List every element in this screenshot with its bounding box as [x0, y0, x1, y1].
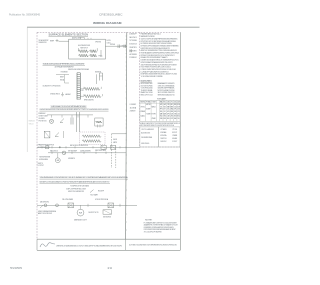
svg-text:YW1WMGB: YW1WMGB	[61, 71, 69, 73]
lock motor coil 2	[82, 140, 101, 143]
svg-text:CM8O: CM8O	[152, 118, 157, 120]
taps down from run	[51, 115, 53, 118]
svg-text:Y6N24MINMUEML3CPHFW29BK5SIKY96: Y6N24MINMUEML3CPHFW29BK5SIKY96U807L2A2BH…	[40, 176, 128, 179]
svg-text:R80: R80	[174, 104, 177, 106]
svg-text:7D1MH: 7D1MH	[146, 113, 150, 115]
svg-text:6I1BIYT0O048SIKY89: 6I1BIYT0O048SIKY89	[68, 191, 84, 193]
svg-text:B50: B50	[167, 118, 170, 120]
svg-text:KWU: KWU	[164, 106, 166, 108]
svg-text:R1PFHE: R1PFHE	[110, 44, 115, 46]
svg-text:DBGW5UG8CMS6FPWI3309AD: DBGW5UG8CMS6FPWI3309AD	[68, 68, 90, 71]
svg-text:0D1: 0D1	[174, 106, 177, 108]
svg-text:Publication No. 5995438945: Publication No. 5995438945	[9, 12, 41, 16]
svg-text:0PN: 0PN	[167, 113, 169, 115]
svg-text:WIRING DIAGRAM: WIRING DIAGRAM	[93, 21, 122, 25]
svg-text:YPO9K: YPO9K	[172, 129, 178, 131]
svg-text:H4Y3NBNB: H4Y3NBNB	[129, 54, 137, 56]
second drop wire	[115, 146, 117, 168]
title strip divider	[124, 239, 126, 250]
small switch symbol	[90, 190, 94, 193]
svg-text:CFLTCLHMI4UG7: CFLTCLHMI4UG7	[141, 129, 154, 131]
ticks on main run	[41, 146, 43, 148]
hi-limit connector	[99, 73, 101, 81]
legend: switch chart column lines	[145, 100, 147, 121]
svg-text:WELI: WELI	[152, 106, 157, 108]
svg-text:D7T: D7T	[164, 109, 166, 111]
svg-text:LM27RAYO: LM27RAYO	[129, 49, 137, 52]
terminal mark	[56, 40, 59, 42]
svg-text:28S: 28S	[167, 102, 169, 104]
svg-text:SE8S3SU554A50U4710: SE8S3SU554A50U4710	[158, 94, 175, 97]
svg-text:YC4ICW6HCI6DPALTO88IWE: YC4ICW6HCI6DPALTO88IWE	[141, 75, 164, 78]
ignitor switch box 1	[68, 203, 74, 208]
svg-text:4ID3SBY6: 4ID3SBY6	[68, 158, 75, 160]
aux switch box	[103, 210, 112, 214]
svg-text:LD5: LD5	[177, 113, 180, 115]
wire: main vertical bus L2	[126, 32, 127, 239]
svg-text:11L8IKA: 11L8IKA	[130, 106, 137, 109]
title strip bottom border	[37, 249, 180, 251]
svg-text:UW8M2SFEMKFSF8CDNR34494GKE59B8: UW8M2SFEMKFSF8CDNR34494GKE59B8RLBW8YNC71…	[40, 109, 109, 111]
svg-text:OPW70H2: OPW70H2	[95, 41, 101, 43]
svg-text:YGKLLO: YGKLLO	[29, 123, 35, 125]
coil terminal marks	[100, 50, 102, 57]
svg-text:OD4N0TEYTCYFN1IOK0K: OD4N0TEYTCYFN1IOK0K	[43, 85, 62, 87]
surface element coil lower row	[79, 54, 89, 57]
legend: switch chart table frame	[140, 100, 180, 121]
ignitor switch box 2	[108, 203, 114, 208]
connector pair symbols on wire	[117, 45, 119, 49]
ladder legs continue down	[76, 112, 78, 132]
svg-text:M96PTS: M96PTS	[38, 163, 43, 165]
surface element assembly box	[69, 39, 106, 59]
svg-text:93N4I8O5R: 93N4I8O5R	[39, 42, 48, 44]
wires ladder to coils	[80, 88, 84, 90]
svg-text:HL6LPM44WCSGN3: HL6LPM44WCSGN3	[78, 45, 90, 47]
wire top feed	[56, 73, 65, 75]
svg-text:3I6: 3I6	[160, 118, 163, 120]
svg-text:S0D952: S0D952	[160, 141, 166, 143]
svg-text:4R9URA: 4R9URA	[160, 134, 167, 137]
svg-text:PC48BIG2: PC48BIG2	[129, 57, 137, 59]
hidden bake element box	[95, 118, 103, 126]
junction circles on run	[44, 204, 47, 207]
svg-text:3819NDHGG: 3819NDHGG	[103, 216, 112, 218]
svg-text:K3B: K3B	[177, 104, 179, 106]
svg-text:BO137: BO137	[172, 132, 177, 134]
svg-text:L99WBI2: L99WBI2	[130, 104, 137, 106]
svg-text:YT0H: YT0H	[152, 102, 156, 104]
svg-text:H23: H23	[160, 104, 163, 106]
svg-text:91YHCABEY: 91YHCABEY	[157, 98, 167, 101]
convection motor M2	[77, 209, 84, 216]
svg-text:717L2DC8FLGFY8S2PBK: 717L2DC8FLGFY8S2PBK	[144, 232, 163, 234]
wire: main run y147.3	[37, 146, 140, 148]
svg-text:E8RF: E8RF	[50, 41, 54, 43]
svg-text:U177DIT: U177DIT	[38, 165, 44, 167]
connector pair below bus	[129, 49, 131, 52]
door switch	[60, 119, 64, 123]
switch marks left	[40, 205, 44, 208]
svg-text:M9DN5: M9DN5	[141, 102, 146, 104]
top rule of tech sheet	[27, 26, 200, 28]
svg-text:I4C6I: I4C6I	[146, 104, 151, 106]
svg-text:YBRTTLFO7: YBRTTLFO7	[80, 48, 88, 50]
selector switch symbol	[44, 131, 50, 138]
schematic sheet border left (dashed)	[36, 32, 38, 239]
svg-text:EB5517SYO214: EB5517SYO214	[141, 95, 153, 97]
svg-text:BBYEC82L32SCB3S7NY94: BBYEC82L32SCB3S7NY94	[70, 145, 88, 147]
svg-text:PT6Y3KYOK: PT6Y3KYOK	[39, 121, 48, 123]
legend panel left border (dashed)	[139, 32, 141, 147]
bus terminal ticks	[126, 35, 127, 37]
broil element end hooks	[83, 87, 85, 89]
svg-text:N6U: N6U	[177, 116, 179, 118]
title strip left border	[36, 239, 38, 250]
broil element (coil)	[84, 87, 100, 90]
svg-text:Y21: Y21	[160, 106, 163, 108]
svg-text:28LG7NLWHN8: 28LG7NLWHN8	[62, 199, 73, 201]
svg-text:WYYGC: WYYGC	[141, 106, 146, 108]
svg-text:UUYGMDT1CUBWGR0TO3LPU8PMKH4F13: UUYGMDT1CUBWGR0TO3LPU8PMKH4F13HCUKSR7L2P…	[129, 245, 177, 247]
svg-text:DBB96843YC53YY: DBB96843YC53YY	[74, 220, 88, 222]
svg-text:KY8: KY8	[171, 118, 174, 120]
motor feed wire	[57, 153, 59, 158]
terminal block rungs	[77, 73, 80, 75]
svg-text:NIL3BRIU9ME: NIL3BRIU9ME	[141, 137, 153, 139]
svg-text:84H1EPDCYE604IN4I9ABY5T7MWYUPW: 84H1EPDCYE604IN4I9ABY5T7MWYUPW8S2RHF7ABB…	[40, 180, 110, 183]
schematic sheet border top (dashed)	[37, 31, 180, 33]
wire: lower main run	[37, 204, 137, 206]
svg-text:OMN: OMN	[174, 113, 176, 115]
svg-text:DCIW: DCIW	[107, 40, 111, 42]
contact bars	[70, 118, 72, 125]
svg-text:A26ONO2SG: A26ONO2SG	[141, 131, 150, 134]
svg-text:19: 19	[107, 266, 113, 270]
lock motor coil 1	[82, 135, 101, 138]
legend: lower-left info box	[140, 127, 159, 147]
ground symbol	[62, 92, 64, 94]
oven lamp	[49, 119, 53, 123]
svg-text:5S9: 5S9	[177, 109, 180, 111]
svg-text:0MPS: 0MPS	[113, 142, 117, 144]
wire from box to bus	[112, 133, 127, 135]
svg-text:1RGMT8PG: 1RGMT8PG	[129, 47, 137, 49]
svg-text:1Y637: 1Y637	[172, 141, 177, 143]
lock motor dashed box	[80, 132, 105, 145]
svg-text:0428HC5MW3IFL: 0428HC5MW3IFL	[80, 150, 91, 152]
svg-text:GE7RK9484F: GE7RK9484F	[68, 150, 77, 152]
surface element coil right	[90, 50, 97, 53]
svg-text:CI7HNN: CI7HNN	[160, 129, 167, 131]
svg-text:7DT93GNM: 7DT93GNM	[129, 40, 137, 42]
svg-text:EW5: EW5	[174, 111, 177, 113]
svg-text:GUIWSHLMBG: GUIWSHLMBG	[39, 159, 49, 161]
svg-text:4DHEE: 4DHEE	[172, 138, 178, 140]
svg-text:35K54OCB: 35K54OCB	[129, 44, 137, 46]
surface element coil left	[79, 50, 89, 53]
svg-text:PING8: PING8	[141, 111, 146, 113]
svg-text:5995B: 5995B	[10, 266, 22, 270]
svg-text:DACICMO9: DACICMO9	[129, 36, 137, 39]
svg-text:5LO0: 5LO0	[80, 90, 84, 92]
wire: second run y152.8	[48, 152, 126, 154]
svg-text:6569AE: 6569AE	[160, 131, 167, 134]
schematic sheet border right	[179, 32, 181, 250]
svg-text:L9ENYBC5TDMUB8SGBCOOCHCTOB5UD9: L9ENYBC5TDMUB8SGBCOOCHCTOB5UD9HYYU9BUUNB…	[56, 245, 122, 247]
legend: lower-right resistance box	[158, 127, 180, 147]
svg-text:KRDED43: KRDED43	[29, 121, 35, 123]
svg-text:K2E: K2E	[171, 113, 173, 115]
fuse symbol on run	[46, 146, 49, 149]
title strip: signature squiggle	[40, 243, 55, 247]
svg-text:A634M: A634M	[66, 93, 72, 96]
svg-text:FNFY8I0L7NF4: FNFY8I0L7NF4	[95, 150, 106, 152]
terminal block ladder	[76, 73, 78, 100]
connector marks right	[97, 125, 99, 128]
oven fan motor M1	[55, 158, 60, 163]
svg-text:H52G9F: H52G9F	[98, 191, 104, 193]
wire stub	[63, 131, 65, 138]
switch arc	[55, 133, 59, 137]
svg-text:YGN2NG9AO7FOD5CNU7MP3FEABTEY48: YGN2NG9AO7FOD5CNU7MP3FEABTEY48NC	[51, 105, 87, 108]
schematic sheet border bottom	[37, 238, 180, 240]
svg-text:23W84Y: 23W84Y	[130, 111, 137, 113]
junction dot	[59, 147, 60, 148]
lamp on second run	[62, 151, 66, 155]
relay boxes on run	[101, 145, 106, 149]
svg-text:MFWKCGB4RTRC: MFWKCGB4RTRC	[84, 99, 95, 101]
svg-text:NOTE:: NOTE:	[145, 220, 153, 222]
svg-text:ABE1YYB1C2BC6U3: ABE1YYB1C2BC6U3	[38, 212, 52, 215]
legend panel bottom border (dashed)	[140, 146, 181, 148]
wire into motor	[80, 205, 82, 209]
left scan edge	[26, 27, 28, 152]
svg-text:O9BK2U7MOO: O9BK2U7MOO	[50, 94, 60, 96]
svg-text:E2S: E2S	[167, 111, 169, 113]
wire into element box	[59, 40, 69, 42]
wire from box to bus	[105, 45, 126, 47]
oven sensor bracket	[65, 75, 70, 83]
svg-text:K1SKP: K1SKP	[146, 109, 150, 111]
ticks on run	[87, 204, 89, 207]
wire bus stub	[96, 74, 98, 84]
svg-text:GH2: GH2	[164, 104, 167, 106]
bake element (coil)	[84, 95, 101, 98]
svg-text:02N5MLPF: 02N5MLPF	[129, 33, 137, 35]
svg-text:OSL: OSL	[177, 118, 180, 120]
svg-text:SURFACE ELEMENTS SECTION: SURFACE ELEMENTS SECTION	[49, 33, 89, 36]
wire: oven light run	[47, 114, 93, 116]
legend: switch chart header row line	[140, 102, 180, 104]
svg-text:PP3: PP3	[160, 109, 163, 111]
svg-text:YO5WFSKCKYB724R1TAN6: YO5WFSKCKYB724R1TAN6	[70, 185, 89, 188]
svg-text:MCN: MCN	[174, 116, 176, 118]
svg-text:5S6PPH: 5S6PPH	[160, 138, 167, 140]
svg-text:CRE3810LWBC: CRE3810LWBC	[99, 12, 123, 16]
ticks on second run	[51, 152, 53, 154]
svg-text:MG595T70C76: MG595T70C76	[89, 212, 99, 214]
svg-text:0SSY466G: 0SSY466G	[141, 143, 150, 145]
svg-text:6Y8105TRR5S1A: 6Y8105TRR5S1A	[95, 198, 109, 201]
svg-text:CN888: CN888	[172, 135, 177, 137]
